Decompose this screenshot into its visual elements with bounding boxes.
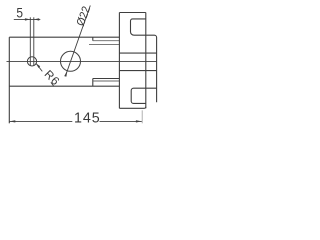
svg-text:Ø22: Ø22 — [75, 5, 94, 28]
dim 5 left arrow — [25, 18, 30, 20]
part outline: main plate bottom edge — [9, 85, 119, 87]
upper notch J shape with far-right step vertical — [131, 19, 157, 102]
part outline: main plate left edge plus 145-dim extension line — [8, 37, 10, 123]
right block bottom edge — [119, 107, 145, 109]
dim 5 right arrow — [34, 18, 39, 20]
dia22 leader arrowhead — [64, 71, 67, 77]
dim 145 right extension line — [141, 110, 143, 123]
horizontal centerline — [7, 60, 158, 62]
right block top edge — [119, 12, 145, 14]
right block left edge — [118, 13, 120, 109]
dim 145 right arrow — [136, 120, 142, 122]
dim 5 line — [14, 18, 41, 20]
groove line y=40.7 — [93, 40, 120, 42]
svg-text:R6: R6 — [42, 68, 62, 88]
dia22 leader line — [65, 6, 90, 77]
groove line y=44.6 — [89, 44, 119, 46]
right block right edge — [145, 13, 147, 109]
lower tongue line y=78.5 — [93, 78, 120, 80]
slot line left / extension line of 5-dim — [29, 17, 31, 66]
lower tongue line y=81 — [93, 80, 120, 82]
part outline: main plate top edge — [9, 36, 119, 38]
small keyhole circle — [27, 57, 36, 66]
slot line right / extension line of 5-dim — [33, 17, 35, 66]
big circle d22 — [61, 51, 81, 71]
dim 145 left arrow — [9, 120, 15, 122]
svg-text:145: 145 — [74, 110, 101, 126]
step vertical at x=93 joining top edge to groove — [92, 37, 94, 41]
lower tongue vertical at x=93 — [92, 79, 94, 87]
dim 145 line right part — [100, 120, 142, 122]
R6 leader arrowhead — [36, 63, 40, 68]
dim 145 line left part — [9, 120, 72, 122]
lower notch C shape — [131, 88, 156, 103]
svg-text:5: 5 — [16, 5, 23, 21]
bar bottom line y=70.6 — [119, 70, 156, 72]
bar top line y=53.1 — [119, 52, 156, 54]
R6 leader line — [36, 63, 54, 86]
